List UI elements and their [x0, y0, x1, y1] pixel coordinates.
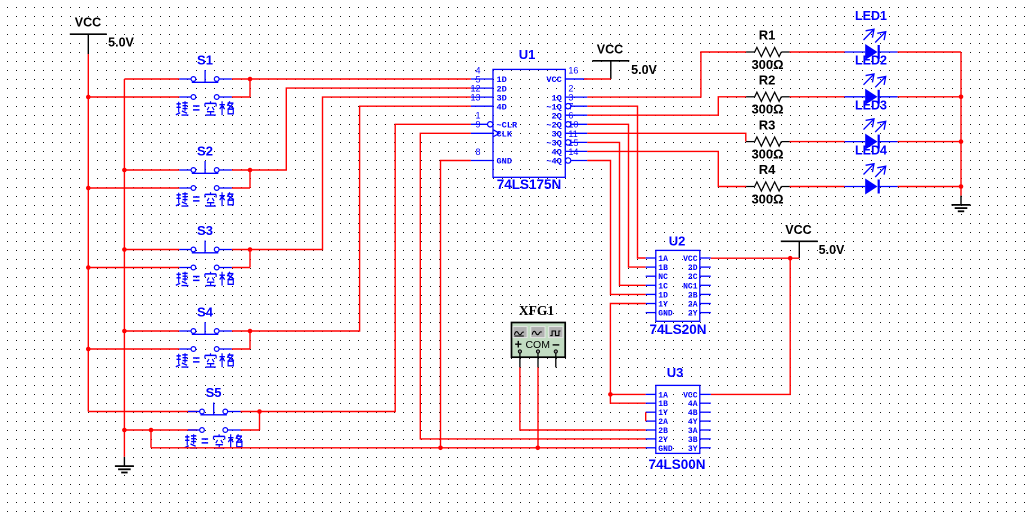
svg-text:4D: 4D [497, 102, 507, 112]
svg-text:LED4: LED4 [855, 144, 887, 158]
junction VCC rail / S4 bottom [86, 347, 91, 352]
wire: S5 to U1 ~CLR [260, 124, 471, 411]
junction VCC rail / S3 bottom [86, 265, 91, 270]
svg-text:NC: NC [658, 273, 668, 282]
switch S4 (SPST key, "Key = Space") [179, 322, 232, 351]
wire: VCC rail to S4 bottom [88, 348, 179, 350]
svg-text:U1: U1 [519, 47, 536, 62]
U2 pin leads [646, 258, 711, 313]
junction ground net / U1 GND [438, 446, 443, 451]
switch S5 (SPST key, "Key = Space") [188, 403, 241, 433]
wire: U1 GND down to ground net [441, 161, 471, 448]
wire: VCC rail to S2 bottom [88, 187, 179, 189]
svg-text:8: 8 [475, 147, 480, 157]
lead XFG1 - terminal (unconnected) [555, 353, 557, 367]
svg-text:2A: 2A [658, 418, 668, 427]
switch S1 (SPST key, "Key = Space") [179, 70, 232, 99]
label S4 "Key = Space" (CJK) [176, 353, 234, 367]
resistor R4 300 Ohm [746, 182, 789, 191]
svg-text:NC1: NC1 [683, 282, 698, 291]
lead XFG1 COM terminal [537, 353, 539, 367]
svg-text:COM: COM [525, 339, 550, 351]
wire: ground net horizontal bottom [151, 447, 646, 449]
LED LED4 (blue) [845, 164, 898, 195]
svg-text:U2: U2 [669, 234, 686, 249]
lead U1 VCC pin16 [565, 78, 584, 80]
svg-text:R1: R1 [759, 28, 776, 43]
svg-text:1A: 1A [658, 255, 668, 264]
wire: LED4 cathode to ground column [898, 186, 961, 188]
svg-text:5.0V: 5.0V [108, 36, 134, 50]
wire: R to LED1 anode [790, 51, 845, 53]
switch S2 (SPST key, "Key = Space") [179, 161, 232, 190]
svg-text:XFG1: XFG1 [519, 303, 554, 318]
wire: S5 bottom to ground net [150, 430, 152, 448]
wire: into U3 1B [610, 394, 645, 403]
svg-text:5.0V: 5.0V [819, 243, 845, 257]
LED LED3 (blue) [845, 119, 898, 150]
wire: U1 2Q to R2 [587, 97, 746, 115]
wire: S4 right-side parallel connection [232, 331, 250, 349]
wire: U1 4Q to R4 [587, 151, 746, 186]
svg-text:U3: U3 [667, 365, 684, 380]
ground (right, LED column) [952, 196, 971, 212]
svg-text:2C: 2C [688, 273, 698, 282]
svg-text:74LS20N: 74LS20N [649, 322, 706, 337]
svg-text:S2: S2 [197, 144, 213, 159]
svg-text:VCC: VCC [546, 75, 561, 85]
wire: U1 ~2Q to U2 1B [587, 124, 645, 267]
svg-text:1C: 1C [658, 282, 668, 291]
U1 pin leads left [471, 79, 500, 161]
svg-text:VCC: VCC [683, 391, 698, 400]
svg-text:+: + [515, 338, 522, 352]
wire: S2 to U1 2D [250, 88, 471, 170]
svg-text:16: 16 [568, 65, 578, 75]
svg-text:2A: 2A [688, 301, 698, 310]
wire: R to LED4 anode [790, 186, 845, 188]
svg-text:VCC: VCC [785, 223, 811, 237]
svg-text:1A: 1A [658, 391, 668, 400]
wire: U1 ~3Q to U2 1C [587, 142, 645, 285]
svg-text:74LS00N: 74LS00N [648, 457, 705, 472]
svg-text:1B: 1B [658, 264, 668, 273]
label S3 "Key = Space" (CJK) [176, 272, 234, 286]
U2 pin names [658, 255, 697, 319]
wire: VCC rail corner to S5 top-left [88, 411, 197, 413]
svg-text:LED2: LED2 [855, 54, 887, 68]
ground (bottom-left) [115, 457, 134, 473]
svg-text:3Y: 3Y [688, 445, 698, 454]
junction LED3 column [959, 139, 964, 144]
resistor R2 300 Ohm [746, 92, 789, 101]
svg-text:VCC: VCC [597, 43, 623, 57]
svg-text:74LS175N: 74LS175N [497, 177, 562, 192]
wire: U1 3Q to R3 [587, 133, 746, 141]
junction S2 output node [248, 168, 253, 173]
U1 pin leads right [565, 79, 587, 163]
svg-text:CLK: CLK [497, 130, 513, 140]
svg-text:S5: S5 [206, 385, 222, 400]
junction key rail / S2 top [122, 168, 127, 173]
svg-text:1B: 1B [658, 400, 668, 409]
wire: S1 to U1 1D [250, 78, 471, 80]
svg-text:5.0V: 5.0V [631, 63, 657, 77]
junction VCC rail / S2 bottom [86, 186, 91, 191]
svg-text:14: 14 [568, 147, 578, 157]
wire: U3 1Y to 2A loop [645, 412, 647, 421]
wire: VCC rail to S1 bottom [88, 96, 179, 98]
label S2 "Key = Space" (CJK) [176, 192, 234, 206]
wire: LED1 cathode to ground column [898, 51, 961, 53]
junction ground net / XFG1 COM [536, 446, 541, 451]
wire: R to LED3 anode [790, 141, 845, 143]
junction U2 VCC / U3 VCC drop [788, 256, 793, 261]
IC U2 74LS20N body [656, 250, 700, 321]
wire: VCC drop to U3 VCC pin [711, 258, 790, 394]
wire: S4 to U1 4D [250, 106, 471, 331]
wire: S3 right-side parallel connection [232, 250, 250, 268]
svg-text:4Y: 4Y [688, 418, 698, 427]
svg-text:~4Q: ~4Q [546, 157, 561, 167]
junction LED2 column [959, 95, 964, 100]
wire: R to LED2 anode [790, 96, 845, 98]
wire: key-common rail vertical x=124 [123, 79, 125, 457]
svg-text:2B: 2B [658, 427, 668, 436]
svg-text:LED3: LED3 [855, 99, 887, 113]
wire: LED common cathode column to ground [960, 52, 962, 196]
power VCC symbol (top-left), 5.0V [70, 16, 135, 55]
resistor R3 300 Ohm [746, 137, 789, 146]
wire: key rail to S4 top-left [124, 330, 179, 332]
svg-text:300Ω: 300Ω [751, 191, 783, 206]
wire: U3 2Y to U1 CLK [420, 133, 646, 439]
label S5 "Key = Space" (CJK) [184, 434, 242, 448]
svg-text:GND: GND [497, 157, 512, 167]
svg-text:2Y: 2Y [658, 436, 668, 445]
switch S3 (SPST key, "Key = Space") [179, 241, 232, 270]
wire: VCC rail vertical x=88 [87, 54, 89, 412]
svg-text:4A: 4A [688, 400, 698, 409]
svg-text:GND: GND [658, 310, 673, 319]
svg-text:S3: S3 [197, 223, 213, 238]
wire: S3 to U1 3D [250, 97, 471, 249]
junction S5 output node [257, 409, 262, 414]
U1 pin names [497, 75, 562, 167]
power VCC symbol (above U1), 5.0V [592, 43, 657, 80]
svg-text:300Ω: 300Ω [751, 146, 783, 161]
svg-text:S4: S4 [197, 305, 214, 320]
wire: U1 ~1Q to U2 1A [587, 106, 645, 258]
junction key rail / S5 bottom [122, 428, 127, 433]
junction VCC rail / S1 bottom [86, 95, 91, 100]
U3 pin names [658, 391, 697, 453]
svg-text:VCC: VCC [75, 16, 101, 30]
LED LED2 (blue) [845, 74, 898, 105]
wire: S5 right-side parallel connection [241, 412, 260, 431]
wire: LED3 cathode to ground column [898, 141, 961, 143]
instrument XFG1 function generator [512, 323, 566, 358]
wire: XFG1 COM to ground net [537, 367, 539, 447]
wire: VCC rail to S3 bottom [88, 267, 179, 269]
wire: key rail to S5 bottom-left [124, 429, 197, 431]
svg-text:300Ω: 300Ω [751, 102, 783, 117]
IC U3 74LS00N body [656, 385, 700, 453]
wire: S1 right-side parallel connection [232, 79, 250, 97]
wire: U1 ~4Q to U2 1D [587, 161, 645, 295]
svg-text:R3: R3 [759, 117, 776, 132]
svg-text:1D: 1D [658, 291, 668, 300]
wire: U1 1Q to R1 [587, 52, 746, 97]
lead XFG1 + terminal [519, 353, 521, 367]
svg-text:2Y: 2Y [688, 310, 698, 319]
svg-text:13: 13 [470, 93, 480, 103]
junction key rail / S3 top [122, 247, 127, 252]
svg-text:S1: S1 [197, 53, 213, 68]
U3 pin leads [646, 394, 711, 447]
svg-text:9: 9 [475, 120, 480, 130]
junction S3 output node [248, 247, 253, 252]
svg-text:1Y: 1Y [658, 409, 668, 418]
svg-text:2D: 2D [688, 264, 698, 273]
svg-text:300Ω: 300Ω [751, 57, 783, 72]
wire: key rail to S3 top-left [124, 249, 179, 251]
junction S4 output node [248, 329, 253, 334]
junction S5 bottom / ground net drop [149, 428, 154, 433]
wire: key rail to S1 top-left [124, 78, 179, 80]
IC U1 74LS175N body [493, 69, 565, 177]
svg-text:GND: GND [658, 445, 673, 454]
label S1 "Key = Space" (CJK) [176, 101, 234, 115]
svg-text:R2: R2 [759, 73, 776, 88]
power VCC symbol (right, above U2), 5.0V [781, 223, 845, 258]
svg-text:1Y: 1Y [658, 301, 668, 310]
svg-text:3A: 3A [688, 427, 698, 436]
wire: U2 1Y down to U3 [610, 304, 645, 395]
junction U3 1A node [608, 392, 613, 397]
wire: into U3 1A [610, 393, 645, 395]
wire: U2 VCC pin to 5V symbol [711, 257, 800, 259]
wire: S2 right-side parallel connection [232, 170, 250, 188]
svg-text:R4: R4 [759, 162, 776, 177]
svg-text:VCC: VCC [683, 255, 698, 264]
svg-text:3B: 3B [688, 436, 698, 445]
wire: U1 VCC to 5V symbol [584, 78, 611, 80]
resistor R1 300 Ohm [746, 47, 789, 56]
wire: key rail to S2 top-left [124, 169, 179, 171]
svg-text:LED1: LED1 [855, 9, 887, 23]
wire: LED2 cathode to ground column [898, 96, 961, 98]
wire: XFG1 + to U3 2B [520, 367, 646, 430]
junction S1 output node [248, 77, 253, 82]
svg-text:4B: 4B [688, 409, 698, 418]
junction LED4 column [959, 184, 964, 189]
U1 pin numbers [470, 65, 578, 156]
svg-text:2B: 2B [688, 291, 698, 300]
junction key rail / S4 top [122, 329, 127, 334]
LED LED1 (blue) [845, 29, 898, 60]
